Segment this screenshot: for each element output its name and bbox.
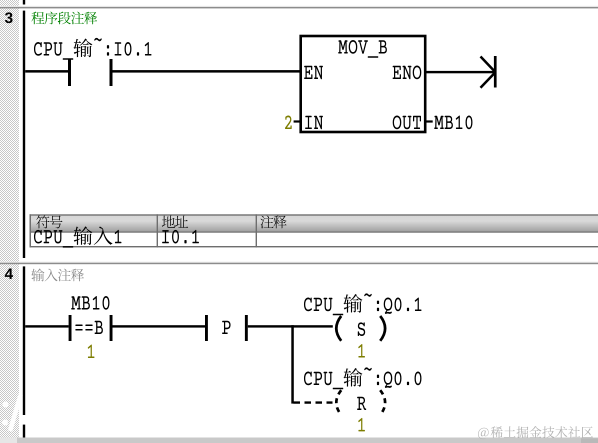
wire rail stub network 2 <box>23 0 25 5</box>
pin tick OUT <box>427 120 433 122</box>
left margin gutter <box>0 0 19 438</box>
coil R operand label CPU_输~:Q0.0 <box>304 367 422 389</box>
wire contact to MOV_B EN <box>113 70 301 73</box>
power rail network 4 upper <box>23 266 25 415</box>
contact compare ==B MB10 <box>69 315 72 341</box>
network 3 separator <box>0 6 598 7</box>
pin EN <box>304 66 323 79</box>
white watermark fragment <box>2 395 21 431</box>
pin IN <box>305 116 323 129</box>
label P <box>222 321 230 334</box>
compare operand 1 <box>88 345 95 358</box>
operand MB10 above compare <box>71 296 109 310</box>
wire rail to compare contact <box>25 325 68 327</box>
pin ENO <box>393 66 422 80</box>
network number 3 <box>5 12 13 23</box>
label MOV_B <box>338 40 387 58</box>
network 3 title comment <box>31 12 97 25</box>
bottom scrollbar track <box>0 438 598 443</box>
dashed wire to coil R <box>294 401 333 403</box>
compare mnemonic ==B <box>75 321 103 334</box>
coil S operand label CPU_输~:Q0.1 <box>304 293 421 315</box>
network 4 title comment <box>31 268 84 281</box>
box MOV_B U-block <box>301 36 426 132</box>
contact label CPU_输~:I0.1 <box>34 38 151 60</box>
rung-end arrow head <box>481 57 496 88</box>
wire compare to P contact <box>113 325 206 327</box>
symbol table borders <box>30 214 598 247</box>
rung-end arrow bar <box>494 56 497 88</box>
row cell CPU_输入1 <box>34 226 121 247</box>
pin OUT <box>393 116 421 130</box>
row cell I0.1 <box>162 230 199 244</box>
branch junction wire down <box>291 325 294 403</box>
header cell 符号 <box>36 215 62 228</box>
power rail network 4 lower <box>23 425 25 438</box>
network 4 separator <box>0 262 598 263</box>
wire rail to contact <box>25 70 68 73</box>
contact CPU_输入1 I0.1 <box>68 59 71 86</box>
juejin watermark <box>478 426 593 439</box>
pin tick IN <box>294 120 301 122</box>
wire ENO to rung end <box>427 71 495 73</box>
header cell 注释 <box>260 215 286 228</box>
coil R letter <box>357 397 366 410</box>
power rail network 3 <box>23 11 25 258</box>
coil R value 1 <box>358 418 365 431</box>
operand MB10 at OUT <box>434 116 472 130</box>
coil S letter <box>358 322 365 336</box>
header cell 地址 <box>162 215 188 227</box>
contact positive edge P <box>205 315 208 341</box>
value 2 at IN <box>285 116 292 129</box>
coil S value 1 <box>358 344 365 357</box>
symbol table header band <box>30 216 598 232</box>
coil S parentheses <box>336 316 385 341</box>
network number 4 <box>5 269 13 279</box>
wire P to coil S <box>248 325 333 327</box>
coil R parentheses dashed <box>336 390 385 415</box>
